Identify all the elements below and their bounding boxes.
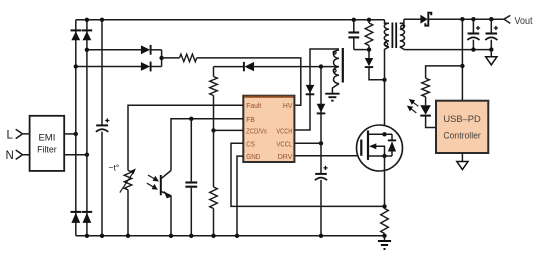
node rail-snubber cap bbox=[352, 18, 356, 22]
wire tap line to aux winding bbox=[254, 66, 339, 68]
diode D8 VCCH rectifier (pointing down) bbox=[306, 85, 315, 94]
wire secondary return bbox=[404, 49, 491, 51]
node N-bridge junction bbox=[85, 153, 89, 157]
svg-text:Filter: Filter bbox=[37, 144, 57, 155]
wire bridge leg 1 (vertical x=75.8) bbox=[75, 20, 77, 236]
svg-text:Fault: Fault bbox=[246, 101, 261, 110]
node MOSFET drain internal bbox=[382, 132, 386, 136]
LED D12 optocoupler (pointing down) bbox=[420, 105, 431, 114]
resistor R3 ZCD lower bbox=[210, 187, 218, 209]
ground USB-PD (open triangle) bbox=[461, 153, 463, 162]
aux winding core bbox=[342, 48, 344, 83]
node FB-cap junction bbox=[189, 117, 193, 121]
svg-text:VCCH: VCCH bbox=[276, 126, 292, 135]
transformer T1 primary winding bbox=[385, 20, 390, 23]
wire VCCH to aux winding top bbox=[294, 49, 339, 130]
node rail-leg2 bbox=[85, 18, 89, 22]
diode D11 output Schottky (pointing right) bbox=[420, 15, 427, 24]
resistor R6 current sense bbox=[381, 208, 389, 233]
node outputrail-cap2 bbox=[489, 17, 493, 21]
MOSFET body diode bbox=[391, 134, 393, 156]
svg-text:EMI: EMI bbox=[38, 132, 55, 143]
wire ZCD pin bbox=[214, 129, 244, 131]
diode D4 bridge bottom-right (pointing up) bbox=[82, 211, 93, 213]
svg-text:HV: HV bbox=[283, 101, 293, 110]
node opto emitter-bottomrail bbox=[169, 234, 173, 238]
capacitor C2 on FB bbox=[190, 119, 192, 236]
capacitor C3 VCCL (electrolytic) bbox=[320, 143, 322, 236]
svg-text:GND: GND bbox=[246, 152, 260, 161]
wire top DC+ rail bbox=[76, 19, 385, 21]
svg-text:L: L bbox=[7, 129, 14, 141]
node outputrail-cap1 bbox=[471, 17, 475, 21]
wire EMI out N to bridge node bbox=[64, 154, 87, 156]
node leg2 tap A bbox=[85, 48, 89, 52]
diode D2 bridge top-right (pointing up) bbox=[82, 29, 93, 31]
node cap1-return bbox=[471, 47, 475, 51]
wire CS pin to sense node bbox=[231, 143, 385, 206]
node snubber-drain bbox=[382, 78, 386, 82]
node VCCL junction bbox=[319, 141, 323, 145]
node VCCLcap-bottomrail bbox=[319, 234, 323, 238]
svg-text:Controller: Controller bbox=[443, 131, 480, 141]
Vout terminal chevron bbox=[504, 15, 510, 23]
bulk capacitor C1 (electrolytic) bbox=[101, 20, 103, 236]
node GND-bottomrail bbox=[235, 234, 239, 238]
wire startup diode join bbox=[161, 50, 163, 67]
svg-text:ZCD/Vs: ZCD/Vs bbox=[246, 126, 267, 135]
node bottomrail-leg2 bbox=[85, 234, 89, 238]
node outputrail-USBPD line bbox=[460, 17, 464, 21]
transformer core bbox=[392, 23, 396, 49]
node bulkcap-bottomrail bbox=[100, 234, 104, 238]
svg-text:FB: FB bbox=[246, 115, 255, 124]
optocoupler transistor Q1 bbox=[160, 175, 162, 195]
diode D9 VCCL rectifier (pointing down) bbox=[317, 104, 326, 113]
svg-text:Vout: Vout bbox=[515, 16, 533, 27]
wire FB pin to opto collector bbox=[171, 119, 243, 171]
node cap2-return-ground bbox=[489, 47, 493, 51]
transformer phase dots bbox=[385, 43, 388, 46]
transistor Q2 power MOSFET bbox=[357, 125, 403, 171]
transformer T1 secondary winding bbox=[400, 19, 404, 23]
USB-PD Controller block U2 bbox=[436, 101, 488, 153]
wire EMI out L to bridge node bbox=[64, 133, 76, 135]
svg-text:VCCL: VCCL bbox=[276, 139, 292, 148]
diode D6 startup (pointing right) bbox=[141, 62, 150, 71]
diode D1 bridge top-left (pointing up) bbox=[71, 29, 82, 31]
wire primary bottom to MOSFET drain bbox=[385, 47, 390, 135]
diode D7 aux tap (pointing left) bbox=[243, 62, 245, 71]
node L-bridge junction bbox=[74, 132, 78, 136]
node snubber RC-diode bbox=[367, 47, 371, 51]
node rail-bulkcap bbox=[100, 18, 104, 22]
wire LED branch bbox=[426, 66, 463, 78]
LED emission arrows bbox=[412, 101, 419, 106]
svg-text:USB–PD: USB–PD bbox=[443, 114, 481, 124]
diode D5 startup (pointing right) bbox=[141, 45, 150, 54]
inductor L1 auxiliary winding bbox=[333, 50, 339, 84]
wire secondary top to output diode bbox=[404, 18, 421, 20]
ground primary bbox=[384, 236, 386, 241]
node startup join bbox=[159, 56, 163, 60]
node leg1 tap B bbox=[74, 64, 78, 68]
svg-text:CS: CS bbox=[246, 139, 255, 148]
wire Vout to USB-PD controller bbox=[461, 19, 463, 101]
resistor R5 LED bbox=[422, 78, 430, 97]
wire bottom DC- rail bbox=[76, 235, 385, 237]
resistor R1 HV startup bbox=[180, 54, 197, 62]
ground aux winding bbox=[325, 94, 339, 101]
op-controller IC U1 (flyback controller) bbox=[243, 96, 294, 162]
wire HV resistor to HV pin bbox=[197, 58, 301, 105]
svg-text:N: N bbox=[6, 150, 14, 162]
node rail-snubber resistor bbox=[367, 18, 371, 22]
resistor R2 ZCD upper bbox=[210, 77, 218, 96]
wire output rail to Vout bbox=[428, 18, 504, 20]
wire to HV resistor bbox=[162, 57, 180, 59]
wire snubber diode to drain bbox=[369, 68, 385, 80]
wire tap line to diode bbox=[214, 66, 244, 68]
svg-text:DRV: DRV bbox=[278, 152, 293, 161]
capacitor C5 output (electrolytic) bbox=[472, 19, 474, 49]
diode D10 snubber (pointing down) bbox=[368, 50, 370, 58]
svg-text:−t°: −t° bbox=[109, 163, 120, 173]
L input terminal chevron bbox=[16, 129, 30, 138]
node LED branch bbox=[460, 64, 464, 68]
wire MOSFET source to sense bbox=[384, 156, 386, 206]
wire LED to USB-PD pin bbox=[426, 117, 436, 128]
EMI Filter block bbox=[30, 116, 65, 171]
node NTC-bottomrail bbox=[126, 234, 130, 238]
capacitor C6 output (electrolytic) bbox=[490, 19, 492, 49]
node source-CS bbox=[382, 204, 386, 208]
capacitor C4 snubber bbox=[353, 20, 355, 50]
N input terminal chevron bbox=[16, 150, 30, 159]
node tap-VCCL diode junction bbox=[319, 64, 323, 68]
wire VCCL pin bbox=[294, 142, 321, 144]
NTC arrow bbox=[120, 172, 134, 192]
diode D3 bridge bottom-left (pointing up) bbox=[71, 211, 82, 213]
wire snubber bottom join bbox=[354, 49, 369, 51]
wire tap diode branch bbox=[320, 67, 322, 144]
thermistor RT1 NTC bbox=[124, 170, 132, 189]
wire AC line B to startup diode bbox=[76, 66, 141, 68]
opto light arrows bbox=[148, 175, 156, 180]
node MOSFET source internal bbox=[382, 154, 386, 158]
node ZCD divider-bottomrail bbox=[211, 234, 215, 238]
node sense-bottomrail bbox=[382, 234, 386, 238]
ground output (open triangle) bbox=[490, 50, 492, 57]
wire AC line A to startup diode bbox=[87, 49, 141, 51]
wire GND pin to bottom rail bbox=[237, 156, 243, 236]
wire aux winding to ground bbox=[332, 84, 339, 94]
wire Fault pin to NTC bbox=[128, 105, 243, 170]
wire bridge leg 2 (vertical x=86.9) bbox=[86, 20, 88, 236]
wire DRV pin to gate bbox=[294, 155, 361, 157]
wire aux tap corner down bbox=[213, 67, 215, 77]
node ZCD junction bbox=[211, 128, 215, 132]
node FBcap-bottomrail bbox=[189, 234, 193, 238]
resistor R4 snubber bbox=[368, 20, 370, 23]
